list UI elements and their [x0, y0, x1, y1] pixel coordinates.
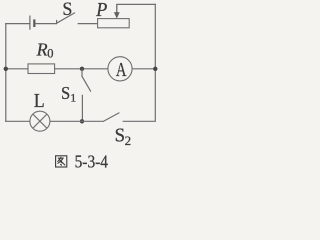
- wire: [5, 24, 7, 122]
- wire: [6, 68, 28, 70]
- svg-text:A: A: [116, 59, 127, 81]
- wire: [117, 3, 156, 5]
- svg-text:R: R: [36, 40, 48, 60]
- wire: [6, 23, 30, 25]
- wire: [6, 120, 30, 122]
- rheostat P: [98, 19, 130, 28]
- slider arrow: [114, 4, 119, 18]
- svg-text:S: S: [62, 0, 72, 20]
- node: [80, 67, 84, 71]
- svg-text:0: 0: [47, 47, 53, 61]
- ammeter A: [108, 57, 132, 81]
- switch S2: [104, 113, 119, 121]
- svg-text:1: 1: [70, 90, 76, 104]
- wire: [78, 23, 98, 25]
- svg-text:S: S: [61, 83, 70, 103]
- switch S: [57, 13, 75, 24]
- node: [4, 67, 8, 71]
- wire: [154, 4, 156, 121]
- wire: [123, 120, 156, 122]
- wire: [81, 95, 83, 122]
- switch S1: [82, 76, 91, 91]
- svg-text:L: L: [34, 90, 45, 112]
- wire: [50, 120, 104, 122]
- node: [80, 119, 84, 123]
- svg-text:2: 2: [125, 133, 132, 148]
- svg-text:S: S: [115, 125, 125, 147]
- wire: [35, 23, 56, 25]
- lamp L: [30, 111, 50, 131]
- svg-text:5-3-4: 5-3-4: [75, 152, 109, 172]
- wire: [81, 69, 83, 77]
- resistor R0: [28, 64, 55, 74]
- svg-text:P: P: [95, 0, 107, 21]
- battery cell: [30, 16, 34, 30]
- wire: [132, 68, 155, 70]
- caption 图 5-3-4: [56, 152, 109, 172]
- node: [153, 67, 157, 71]
- wire: [55, 68, 108, 70]
